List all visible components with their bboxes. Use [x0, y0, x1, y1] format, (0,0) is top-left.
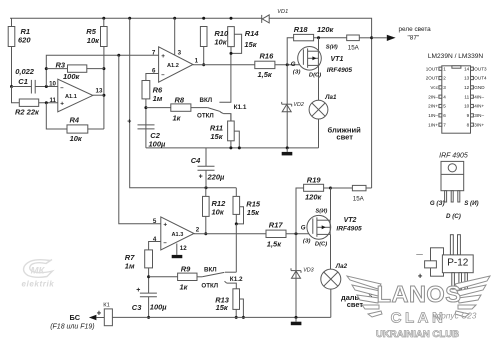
svg-text:7: 7: [443, 122, 446, 127]
label 0,022 C1: [15, 67, 35, 86]
svg-text:свет: свет: [347, 300, 364, 309]
op-amp A1.2: [159, 47, 193, 82]
ground upper: [282, 148, 293, 156]
pin 7 label: [152, 50, 156, 57]
label rele sveta 87: [399, 26, 432, 41]
lamp La1: [309, 100, 328, 119]
node R13 bottom: [235, 316, 238, 319]
node junction R5 top: [102, 17, 105, 20]
svg-text:D (С): D (С): [446, 213, 461, 220]
resistor R15: [233, 196, 240, 214]
svg-text:R17: R17: [269, 220, 284, 229]
wire R15 tap bracket: [236, 207, 243, 224]
relay P-12 label box: [442, 255, 473, 273]
wire R8 left: [146, 107, 171, 109]
zener VD3: [291, 268, 301, 278]
label D(C) VT2: [315, 242, 327, 248]
wire R8 right: [191, 107, 208, 109]
node junction R10 top: [202, 17, 205, 20]
node VT2 source: [329, 187, 332, 190]
svg-text:R19: R19: [307, 175, 322, 184]
resistor R3: [68, 65, 87, 72]
label blizhniy svet: [328, 126, 362, 142]
svg-text:6: 6: [443, 113, 446, 118]
label R9 1k: [180, 265, 192, 292]
node junction R14 top: [230, 17, 233, 20]
svg-text:GND: GND: [474, 85, 485, 90]
wire A1.2 pin3: [174, 18, 176, 55]
svg-text:К1: К1: [103, 303, 110, 309]
svg-text:OUT4: OUT4: [474, 76, 487, 81]
svg-text:G: G: [301, 225, 306, 232]
svg-text:IRF4905: IRF4905: [336, 225, 362, 232]
diode VD1: [262, 15, 270, 23]
svg-text:R18: R18: [294, 25, 309, 34]
wire R12 top: [205, 188, 207, 197]
label R15 15k: [246, 199, 261, 216]
label K1.2: [230, 276, 243, 283]
pin 6 label: [152, 68, 156, 75]
transistor VT2 IRF4905: [307, 215, 331, 239]
wire R12 bottom: [205, 216, 207, 233]
label G VT2: [301, 225, 306, 232]
wire R13 tap bracket: [240, 299, 244, 317]
label VT1: [331, 56, 344, 63]
label VKL top: [200, 97, 213, 104]
wire R15 to K1.2: [235, 224, 237, 272]
svg-text:S(И): S(И): [315, 208, 327, 214]
svg-text:D(С): D(С): [309, 73, 321, 79]
node pin11: [45, 101, 48, 104]
resistor R14: [228, 27, 235, 47]
svg-text:UKRAINIAN CLUB: UKRAINIAN CLUB: [376, 329, 459, 338]
wire pin6 to R6: [146, 74, 159, 81]
svg-text:Ла1: Ла1: [324, 94, 337, 101]
svg-text:2IN+: 2IN+: [428, 104, 438, 109]
label R17 1,5k: [267, 220, 284, 248]
svg-text:МК: МК: [31, 265, 46, 276]
svg-text:220µ: 220µ: [207, 173, 226, 182]
resistor R9: [178, 273, 197, 280]
svg-text:9: 9: [467, 113, 470, 118]
capacitor C4 220u: [198, 148, 215, 188]
wire to fuse lower: [331, 187, 353, 189]
label VD1: [277, 9, 288, 15]
wire R5 bottom output column: [103, 47, 105, 130]
wire R11 tap bracket: [234, 131, 239, 148]
svg-text:1: 1: [195, 57, 199, 64]
label La2: [335, 263, 348, 270]
svg-text:15к: 15к: [216, 303, 229, 312]
resistor R18: [294, 34, 314, 40]
label R6 1M: [153, 85, 163, 102]
node R3 right: [102, 67, 105, 70]
capacitor C2 100u: [127, 119, 154, 148]
package TO-220: [441, 161, 464, 202]
arrow to relay: [372, 35, 396, 41]
label VKL bottom: [204, 266, 217, 273]
svg-text:12: 12: [464, 85, 470, 90]
svg-text:R9: R9: [181, 265, 191, 274]
svg-text:5: 5: [153, 218, 157, 225]
wire VT1 source up: [318, 38, 320, 51]
wire pin5 vertical: [119, 55, 161, 224]
wire R1 top: [11, 18, 13, 26]
svg-text:VT2: VT2: [344, 217, 357, 224]
zener VD2: [282, 102, 292, 112]
switch K1.1 lower contact: [221, 112, 231, 121]
label IRF 4905 package: [439, 153, 468, 160]
node R7 bottom: [147, 275, 150, 278]
label VT2: [344, 217, 357, 224]
wire VT2 source up: [330, 188, 332, 220]
svg-text:LANOS: LANOS: [377, 281, 462, 307]
wire A1.3 out to R17: [194, 233, 266, 235]
pin 12 label: [180, 245, 187, 252]
wire R3 right: [87, 68, 104, 70]
wire R15 bottom: [235, 214, 237, 224]
wire R19 left drop: [296, 188, 304, 234]
label IRF4905 VT2: [336, 225, 362, 232]
svg-text:4IN+: 4IN+: [474, 104, 484, 109]
svg-text:G (З): G (З): [430, 200, 445, 207]
svg-text:+: +: [97, 308, 102, 317]
label La1: [324, 94, 337, 101]
svg-text:ВКЛ: ВКЛ: [200, 97, 213, 104]
wire A1.1 output: [93, 94, 104, 96]
svg-text:100µ: 100µ: [149, 140, 167, 149]
svg-text:1м: 1м: [153, 94, 163, 103]
wire R14 bottom: [230, 47, 232, 54]
svg-text:2: 2: [196, 227, 200, 234]
svg-text:4: 4: [443, 94, 446, 99]
pin 11 label: [49, 97, 56, 104]
svg-text:15к: 15к: [210, 132, 223, 141]
svg-text:10к: 10к: [212, 208, 225, 217]
svg-text:+: +: [161, 53, 165, 60]
wire down to R2: [12, 87, 20, 103]
svg-text:R3: R3: [56, 61, 66, 70]
svg-text:4IN–: 4IN–: [474, 94, 484, 99]
svg-text:––: ––: [416, 252, 423, 258]
svg-text:3IN+: 3IN+: [474, 122, 484, 127]
label C3 100u: [132, 303, 168, 312]
svg-text:620: 620: [18, 36, 31, 45]
label minus relay: [416, 252, 423, 258]
wire R7 bottom: [148, 268, 150, 293]
wire R9 right: [197, 276, 202, 278]
IC LM339 pinout: [426, 66, 487, 133]
svg-text:1IN–: 1IN–: [428, 113, 438, 118]
svg-text:ВКЛ: ВКЛ: [204, 266, 217, 273]
wire VD2 column: [286, 65, 288, 148]
wire R17 to gate: [286, 233, 313, 235]
node relay branch: [370, 36, 373, 39]
wire bottom rail: [112, 316, 330, 318]
switch K1.1 upper contact: [219, 53, 231, 102]
label OTKL bottom: [201, 283, 218, 290]
resistor R19: [304, 184, 324, 191]
wire R9 left: [149, 276, 178, 278]
svg-text:14: 14: [464, 66, 470, 71]
svg-text:IRF 4905: IRF 4905: [439, 153, 468, 160]
svg-text:VD1: VD1: [277, 9, 288, 15]
svg-text:11: 11: [464, 94, 469, 99]
svg-text:реле света: реле света: [399, 26, 432, 33]
label IRF4905 VT1: [327, 67, 353, 74]
svg-text:8: 8: [467, 122, 470, 127]
node R13 tap bottom: [242, 316, 245, 319]
node C4 bottom R12 top: [205, 186, 208, 189]
svg-text:1,5к: 1,5к: [258, 70, 273, 79]
label R4 10k: [70, 116, 83, 143]
switch K1.2 upper contact: [225, 271, 236, 273]
node A1.1 out: [102, 94, 105, 97]
label LM239N / LM339N: [428, 53, 484, 60]
wire R10 bottom: [203, 47, 205, 65]
svg-text:11: 11: [49, 97, 56, 104]
node VD2 bottom: [286, 146, 289, 149]
label dalniy svet: [341, 293, 373, 309]
svg-text:10к: 10к: [214, 37, 227, 46]
svg-text:+: +: [127, 119, 131, 126]
wire R11 bottom: [230, 141, 232, 148]
label S (I) package: [464, 200, 478, 207]
label S(I) VT2: [315, 208, 327, 214]
label korpus C23: [433, 311, 477, 321]
capacitor C1: [12, 80, 58, 94]
svg-text:120к: 120к: [317, 25, 335, 34]
pin 10 label: [49, 81, 56, 88]
pin 2 label: [196, 227, 200, 234]
svg-text:Р-12: Р-12: [447, 258, 469, 269]
relay P-12 pins top: [450, 235, 460, 255]
label R2 22k: [15, 108, 40, 117]
label D (C) package: [446, 213, 461, 220]
label G VT1: [291, 61, 296, 68]
wire R19 right: [324, 187, 331, 189]
watermark LANOS wings right: [455, 276, 490, 317]
label R12 10k: [212, 199, 227, 217]
switch K1.2 lower contact: [225, 281, 237, 289]
pin 12 ground: [172, 244, 183, 259]
resistor R11: [228, 121, 235, 141]
svg-text:R16: R16: [260, 51, 275, 60]
svg-text:D(С): D(С): [315, 242, 327, 248]
svg-text:БС: БС: [70, 313, 81, 322]
fuse FU1 15A: [347, 35, 360, 51]
wire R14 tap bracket: [231, 34, 242, 53]
switch K1.2 blade: [202, 272, 224, 276]
svg-text:15к: 15к: [247, 208, 260, 217]
svg-text:(F18 или F19): (F18 или F19): [50, 324, 94, 331]
wire top rail right segment to right-side drop: [269, 18, 371, 188]
svg-text:120к: 120к: [305, 192, 323, 201]
node R10 bottom: [202, 63, 205, 66]
node R14 bottom: [230, 52, 233, 55]
svg-text:10: 10: [49, 81, 56, 88]
wire pin11 down to R4: [46, 103, 67, 129]
switch K1.1 blade: [208, 108, 222, 113]
svg-text:Vcc: Vcc: [430, 85, 438, 90]
resistor R7: [145, 250, 153, 268]
svg-text:2IN–: 2IN–: [428, 94, 438, 99]
svg-text:+: +: [418, 272, 423, 281]
resistor R4: [67, 125, 88, 133]
label R16 1,5k: [258, 51, 275, 79]
svg-text:Ла2: Ла2: [335, 263, 348, 270]
svg-text:13: 13: [96, 88, 103, 95]
svg-text:10к: 10к: [87, 36, 100, 45]
label C2 100u: [149, 131, 167, 149]
svg-text:100к: 100к: [63, 72, 81, 81]
wire VT1 drain down: [318, 65, 320, 100]
wire R18 right: [314, 37, 347, 39]
label R7 1M: [125, 253, 135, 270]
svg-text:"87": "87": [408, 34, 420, 41]
svg-text:+: +: [199, 174, 203, 181]
svg-text:C1: C1: [18, 77, 28, 86]
svg-text:2: 2: [443, 76, 446, 81]
svg-text:+: +: [136, 287, 140, 294]
svg-text:3: 3: [178, 49, 182, 56]
svg-text:(З): (З): [303, 239, 311, 245]
transistor VT1 IRF4905: [298, 47, 322, 71]
svg-text:LM239N / LM339N: LM239N / LM339N: [428, 53, 484, 60]
svg-text:свет: свет: [336, 133, 353, 142]
svg-text:К1.1: К1.1: [234, 104, 247, 111]
svg-text:C4: C4: [191, 156, 201, 165]
label S(I) VT1: [326, 45, 338, 51]
node A1.3 pin5 branch: [117, 54, 120, 57]
label C4: [191, 156, 225, 181]
label R1 620: [18, 27, 31, 44]
wire R2 right pin11: [39, 102, 58, 104]
label R19 120k: [305, 175, 323, 201]
svg-text:1,5к: 1,5к: [267, 240, 282, 249]
svg-text:ОТКЛ: ОТКЛ: [201, 283, 218, 290]
svg-text:3: 3: [443, 85, 446, 90]
svg-text:1м: 1м: [125, 261, 135, 270]
svg-text:7: 7: [152, 50, 156, 57]
svg-text:A1.1: A1.1: [65, 94, 77, 100]
relay P-12 body: [425, 248, 444, 276]
label VD2: [293, 102, 304, 108]
node R6 bottom: [144, 106, 147, 109]
node gate VT1: [286, 63, 289, 66]
label R5 10k: [86, 27, 100, 45]
label (Z) VT2: [303, 239, 311, 245]
wire R15 top: [235, 188, 237, 197]
svg-text:1OUT: 1OUT: [426, 66, 438, 71]
svg-text:К1.2: К1.2: [230, 276, 243, 283]
node pin10: [45, 85, 48, 88]
svg-text:1IN+: 1IN+: [428, 122, 438, 127]
svg-text:R2 22к: R2 22к: [15, 108, 40, 117]
resistor R16: [255, 61, 275, 68]
watermark LANOS text: [377, 281, 462, 307]
node junction supply drop: [128, 17, 131, 20]
lamp La2: [321, 269, 341, 289]
svg-text:1к: 1к: [180, 283, 189, 292]
node C3 bottom: [147, 316, 150, 319]
wire VT2 drain down: [330, 234, 332, 269]
wire R6 bottom: [145, 99, 147, 125]
watermark GEK logo: [22, 260, 55, 289]
svg-text:10к: 10к: [70, 134, 83, 143]
wire La2 bottom: [330, 289, 332, 317]
label OTKL top: [197, 113, 214, 120]
wire top +12V rail left segment: [10, 17, 262, 19]
pin 4 label: [153, 236, 157, 243]
op-amp A1.3: [161, 217, 194, 250]
svg-text:C3: C3: [132, 303, 142, 312]
node VT1 source: [317, 36, 320, 39]
wire VD3 column: [295, 234, 297, 318]
node R3 left: [45, 67, 48, 70]
svg-text:A1.2: A1.2: [167, 63, 179, 69]
resistor R13: [233, 289, 240, 310]
svg-text:OUT3: OUT3: [474, 66, 487, 71]
label R14 15k: [244, 29, 259, 49]
pin 1 label: [195, 57, 199, 64]
label F18 F19: [50, 324, 94, 331]
label R3 100k: [56, 61, 81, 82]
svg-text:15A: 15A: [348, 44, 360, 51]
label BS: [70, 313, 81, 322]
svg-text:VD2: VD2: [293, 102, 304, 108]
svg-text:15A: 15A: [353, 195, 365, 202]
fuse FU2 15A: [352, 185, 366, 202]
node gate VT2: [295, 232, 298, 235]
node junction A1.2 pin3: [173, 17, 176, 20]
label R10 10k: [214, 29, 229, 46]
wire R4 right up to output: [88, 128, 104, 130]
node VD3 bottom: [295, 316, 298, 319]
node R11 bottom: [229, 146, 232, 149]
wire R13 bottom: [235, 309, 237, 317]
svg-text:1: 1: [443, 66, 446, 71]
capacitor C3 100u: [136, 287, 157, 317]
node R12 bottom: [204, 232, 207, 235]
svg-text:100µ: 100µ: [150, 303, 168, 312]
resistor R5: [101, 27, 108, 47]
svg-text:ОТКЛ: ОТКЛ: [197, 113, 214, 120]
svg-text:+: +: [60, 101, 64, 108]
svg-text:S (И): S (И): [464, 200, 478, 207]
resistor R6: [142, 81, 150, 99]
svg-text:elektrik: elektrik: [22, 280, 55, 289]
svg-text:0,022: 0,022: [15, 67, 35, 76]
wire R1 bottom to C1 node: [11, 47, 13, 87]
svg-text:S(И): S(И): [326, 45, 338, 51]
resistor R12: [203, 196, 210, 216]
svg-text:(З): (З): [293, 69, 301, 75]
wire K1.1 to R11: [230, 114, 232, 121]
wire R18 left drop: [287, 38, 293, 65]
svg-text:IRF4905: IRF4905: [327, 67, 353, 74]
label R13 15k: [215, 295, 230, 312]
label plus relay: [418, 272, 423, 281]
label R18 120k: [294, 25, 335, 34]
svg-text:13: 13: [464, 76, 470, 81]
label G (Z) package: [430, 200, 445, 207]
pin 3 label: [178, 49, 182, 56]
svg-text:12: 12: [180, 245, 187, 252]
node R15 bottom: [235, 222, 238, 225]
label K1: [103, 303, 110, 309]
svg-text:корпус С23: корпус С23: [433, 311, 477, 321]
